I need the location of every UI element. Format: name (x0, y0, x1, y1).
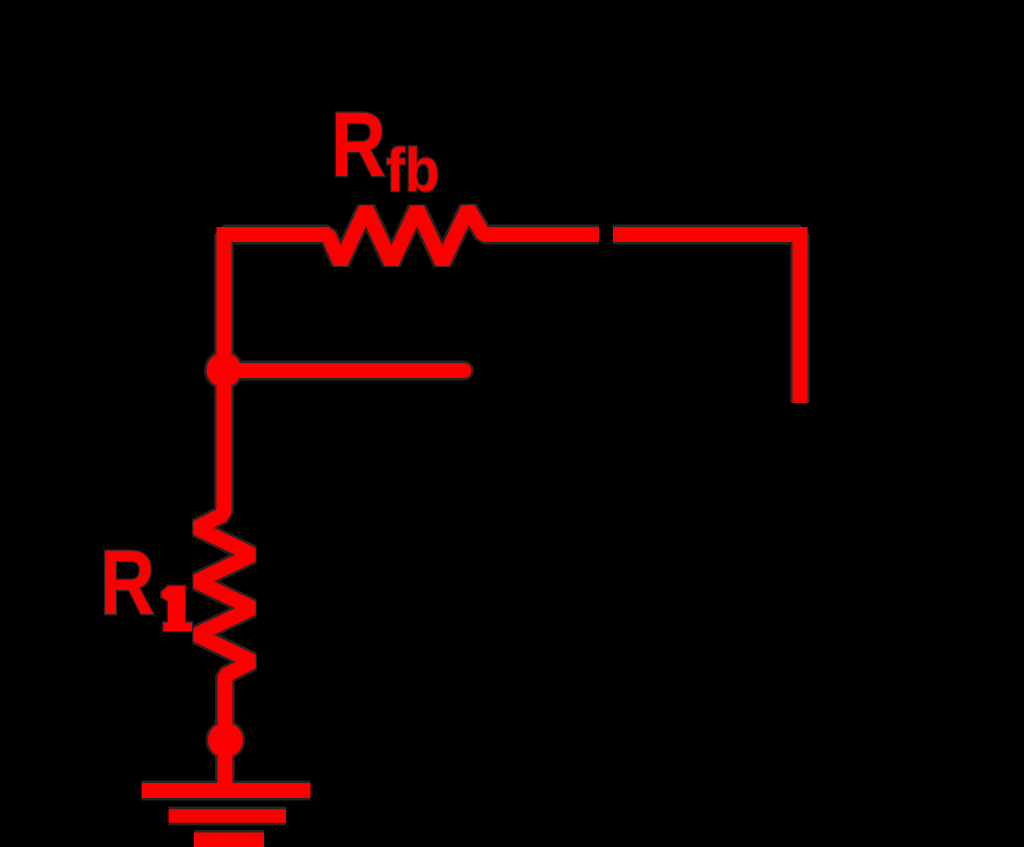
svg-text:fb: fb (386, 137, 440, 204)
svg-text:R: R (331, 93, 386, 195)
svg-text:R: R (100, 531, 155, 633)
